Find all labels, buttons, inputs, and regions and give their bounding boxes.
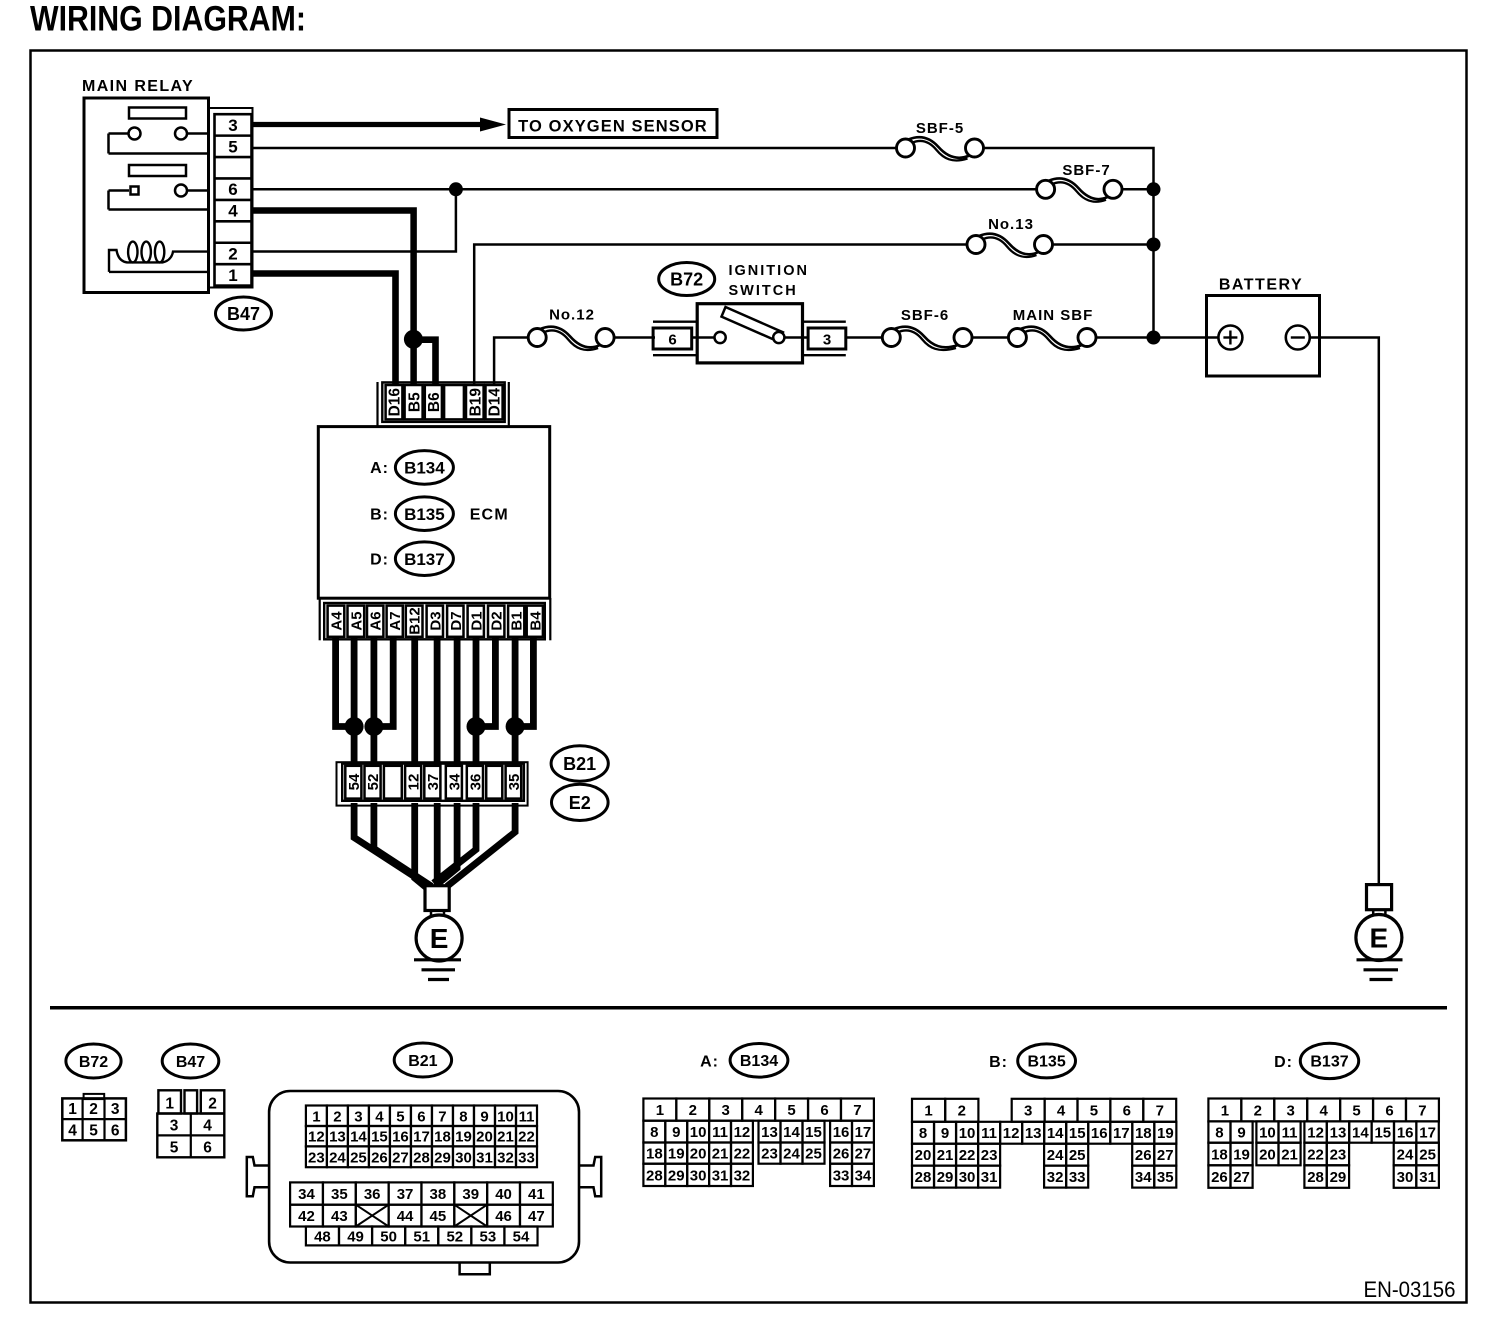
relay contact bar 1: [129, 108, 186, 119]
svg-text:B137: B137: [404, 550, 445, 569]
svg-text:6: 6: [203, 1139, 212, 1156]
svg-text:3: 3: [1287, 1102, 1295, 1119]
svg-text:6: 6: [1385, 1102, 1393, 1119]
svg-text:8: 8: [650, 1124, 658, 1141]
relay contact 1 terminals: [129, 128, 141, 140]
wire A4: [336, 637, 355, 727]
ground symbol right: [1357, 958, 1403, 961]
svg-text:B4: B4: [527, 611, 544, 631]
svg-text:13: 13: [1330, 1124, 1347, 1141]
svg-text:19: 19: [668, 1146, 685, 1163]
battery negative terminal: [1286, 326, 1310, 350]
svg-text:A5: A5: [348, 611, 365, 630]
ground terminal square right: [1367, 885, 1392, 910]
wire A6: [370, 637, 377, 766]
svg-text:23: 23: [761, 1146, 778, 1163]
svg-text:28: 28: [1307, 1169, 1324, 1186]
svg-text:44: 44: [397, 1208, 414, 1225]
svg-text:29: 29: [668, 1167, 685, 1184]
svg-text:5: 5: [228, 137, 237, 156]
svg-text:51: 51: [413, 1228, 430, 1245]
svg-text:27: 27: [1157, 1147, 1174, 1164]
svg-text:50: 50: [380, 1228, 397, 1245]
wire SBF-7 to bus: [1122, 188, 1154, 191]
connector B72 pinout: [84, 1094, 105, 1099]
svg-text:D14: D14: [487, 388, 504, 417]
svg-text:3: 3: [170, 1117, 179, 1134]
svg-text:8: 8: [919, 1125, 927, 1142]
connector B21 bottom tab: [460, 1263, 490, 1275]
svg-text:21: 21: [937, 1147, 954, 1164]
svg-text:28: 28: [646, 1167, 663, 1184]
svg-text:29: 29: [1330, 1169, 1347, 1186]
svg-text:35: 35: [506, 774, 523, 791]
oval B21 schematic: [551, 746, 608, 781]
svg-text:10: 10: [497, 1108, 514, 1125]
wire relay pin 5: [253, 147, 897, 150]
ignition switch blade: [722, 307, 784, 342]
svg-text:5: 5: [89, 1122, 98, 1139]
oval B21 pinout: [394, 1043, 451, 1077]
oval B134 pinout: [730, 1044, 788, 1078]
svg-text:6: 6: [668, 332, 676, 349]
connector B21 left tab: [247, 1157, 268, 1196]
wire B1: [512, 637, 519, 766]
fuse SBF-6: [894, 327, 958, 348]
svg-text:B134: B134: [404, 459, 445, 478]
svg-text:EN-03156: EN-03156: [1364, 1277, 1456, 1302]
connector strip B47 cells: [215, 114, 252, 285]
svg-text:E2: E2: [569, 793, 591, 813]
connector B21 body: [269, 1091, 579, 1263]
svg-text:25: 25: [1069, 1147, 1086, 1164]
wire D3: [434, 637, 441, 766]
fuse SBF-5: [909, 137, 970, 158]
svg-text:10: 10: [690, 1124, 707, 1141]
svg-text:46: 46: [495, 1208, 512, 1225]
svg-text:A7: A7: [387, 611, 404, 630]
svg-text:47: 47: [528, 1208, 545, 1225]
B21 middle grid pins 34-47: [290, 1182, 323, 1204]
svg-text:31: 31: [1419, 1169, 1436, 1186]
wire No.13 to bus: [1052, 243, 1154, 246]
svg-text:37: 37: [425, 774, 442, 791]
svg-text:8: 8: [1215, 1124, 1223, 1141]
wire D1: [473, 637, 480, 766]
oval B47 pinout: [162, 1044, 219, 1078]
svg-text:B6: B6: [426, 392, 443, 412]
relay contact bar 2: [129, 165, 186, 176]
svg-text:ECM: ECM: [470, 507, 509, 524]
section divider: [50, 1006, 1447, 1010]
svg-text:22: 22: [734, 1146, 751, 1163]
svg-text:2: 2: [333, 1108, 341, 1125]
svg-text:5: 5: [787, 1102, 795, 1119]
svg-text:4: 4: [203, 1117, 212, 1134]
oval B72 pinout: [66, 1044, 121, 1078]
connector B134 grid: [643, 1099, 676, 1121]
svg-text:11: 11: [712, 1124, 728, 1141]
svg-text:1: 1: [656, 1102, 664, 1119]
ignition switch contacts: [692, 336, 715, 339]
svg-text:6: 6: [1123, 1103, 1131, 1120]
svg-text:25: 25: [350, 1149, 367, 1166]
svg-text:16: 16: [1091, 1125, 1108, 1142]
svg-text:6: 6: [111, 1122, 120, 1139]
junction A6/A7: [364, 717, 383, 736]
svg-text:52: 52: [446, 1228, 463, 1245]
svg-text:14: 14: [350, 1129, 367, 1146]
relay contact 1 wiring: [109, 132, 130, 135]
svg-text:D7: D7: [448, 611, 465, 630]
svg-text:13: 13: [329, 1129, 346, 1146]
svg-text:3: 3: [1024, 1103, 1032, 1120]
svg-text:29: 29: [434, 1149, 451, 1166]
wire relay pin 1 to ECM D16: [253, 274, 396, 387]
svg-text:B72: B72: [670, 269, 703, 289]
wire relay pin 4 to ECM B5: [253, 211, 414, 387]
wire D7: [454, 637, 461, 766]
svg-text:1: 1: [1221, 1102, 1229, 1119]
svg-text:3: 3: [823, 332, 831, 349]
svg-text:33: 33: [518, 1149, 535, 1166]
wire B4: [515, 637, 533, 727]
svg-text:27: 27: [1233, 1169, 1250, 1186]
connector B47 pinout: [158, 1090, 181, 1113]
svg-text:D1: D1: [468, 611, 485, 630]
svg-text:22: 22: [1307, 1146, 1324, 1163]
svg-text:54: 54: [513, 1228, 530, 1245]
svg-text:BATTERY: BATTERY: [1219, 277, 1303, 294]
svg-text:B134: B134: [740, 1053, 778, 1070]
svg-text:45: 45: [430, 1208, 447, 1225]
svg-text:17: 17: [855, 1124, 872, 1141]
fuse SBF-7: [1049, 179, 1108, 200]
svg-text:D3: D3: [427, 611, 444, 630]
connector B137 grid: [1208, 1099, 1241, 1122]
svg-text:2: 2: [958, 1103, 966, 1120]
svg-text:1: 1: [312, 1108, 320, 1125]
relay contact 2 wiring: [109, 189, 130, 192]
svg-text:1: 1: [924, 1103, 932, 1120]
svg-text:MAIN SBF: MAIN SBF: [1013, 307, 1094, 324]
svg-text:E: E: [430, 923, 449, 954]
svg-text:4: 4: [754, 1102, 763, 1119]
svg-text:42: 42: [298, 1208, 315, 1225]
fuse MAIN SBF: [1020, 327, 1082, 348]
svg-text:2: 2: [228, 244, 237, 263]
svg-text:32: 32: [734, 1167, 751, 1184]
ground connector housing: [337, 762, 528, 805]
svg-text:19: 19: [455, 1129, 472, 1146]
svg-text:3: 3: [354, 1108, 362, 1125]
junction bus SBF-7: [1147, 182, 1161, 196]
svg-text:B:: B:: [370, 507, 389, 524]
svg-text:34: 34: [446, 773, 463, 790]
svg-text:17: 17: [1419, 1124, 1436, 1141]
svg-text:19: 19: [1157, 1125, 1174, 1142]
junction bus main line: [1147, 331, 1161, 345]
svg-text:No.12: No.12: [549, 307, 595, 324]
ground connector cells 54 52 12 37 34 36 35: [342, 764, 524, 801]
svg-text:21: 21: [497, 1129, 514, 1146]
svg-text:3: 3: [111, 1101, 120, 1118]
svg-text:49: 49: [347, 1228, 364, 1245]
svg-text:12: 12: [734, 1124, 751, 1141]
relay contact 2 terminals: [131, 187, 139, 195]
svg-text:16: 16: [392, 1129, 409, 1146]
connector B21 right tab: [580, 1157, 601, 1196]
svg-text:B72: B72: [79, 1054, 108, 1071]
wire relay pin 6: [253, 188, 1038, 191]
ECM bottom connector cells A4 A5 A6 A7 B12 D3 D7 D1 D2 B1 B4: [328, 606, 345, 637]
oval E2 schematic: [552, 784, 609, 820]
oval B135 pinout: [1018, 1044, 1076, 1078]
svg-text:D:: D:: [370, 552, 389, 569]
svg-text:SBF-6: SBF-6: [901, 307, 949, 324]
svg-text:35: 35: [1157, 1169, 1174, 1186]
wire ignition to SBF-6: [846, 336, 883, 339]
svg-text:9: 9: [480, 1108, 488, 1125]
svg-text:2: 2: [208, 1095, 217, 1112]
svg-text:12: 12: [406, 774, 423, 791]
svg-text:A4: A4: [328, 611, 345, 631]
svg-text:13: 13: [761, 1124, 778, 1141]
svg-text:41: 41: [528, 1186, 545, 1203]
wire SBF-6 to MAIN SBF: [972, 336, 1009, 339]
ground E right: [1356, 915, 1402, 961]
svg-text:12: 12: [308, 1129, 325, 1146]
svg-text:19: 19: [1233, 1146, 1250, 1163]
svg-text:52: 52: [365, 774, 382, 791]
svg-text:5: 5: [396, 1108, 404, 1125]
svg-text:1: 1: [165, 1095, 174, 1112]
ECM bottom connector housing: [319, 598, 321, 640]
svg-text:2: 2: [689, 1102, 697, 1119]
svg-text:32: 32: [1047, 1169, 1064, 1186]
svg-text:7: 7: [853, 1102, 861, 1119]
TO OXYGEN SENSOR box: [509, 110, 717, 138]
connector B135 grid: [912, 1099, 945, 1122]
svg-text:B47: B47: [176, 1054, 205, 1071]
junction node pin6/pin2: [449, 182, 463, 196]
svg-text:26: 26: [833, 1146, 850, 1163]
svg-text:4: 4: [375, 1108, 384, 1125]
svg-text:23: 23: [1330, 1146, 1347, 1163]
svg-text:15: 15: [371, 1129, 388, 1146]
svg-text:B12: B12: [407, 607, 424, 635]
svg-text:B5: B5: [406, 392, 423, 412]
svg-text:3: 3: [228, 116, 237, 135]
svg-text:5: 5: [1352, 1102, 1360, 1119]
svg-text:28: 28: [915, 1169, 932, 1186]
svg-text:No.13: No.13: [988, 216, 1034, 233]
ECM top connector housing: [376, 382, 378, 426]
oval B72: [659, 263, 715, 296]
svg-text:30: 30: [1397, 1169, 1414, 1186]
ignition switch pin 3 box: [804, 321, 846, 323]
svg-text:IGNITION: IGNITION: [729, 263, 809, 279]
battery positive terminal: [1207, 336, 1220, 339]
svg-text:27: 27: [392, 1149, 409, 1166]
fuse No.13: [979, 234, 1039, 255]
svg-text:36: 36: [467, 774, 484, 791]
svg-text:A6: A6: [368, 611, 385, 630]
svg-text:18: 18: [434, 1129, 451, 1146]
wire MAIN SBF to battery: [1096, 336, 1207, 339]
svg-text:24: 24: [329, 1149, 346, 1166]
svg-text:22: 22: [959, 1147, 976, 1164]
main relay box: [84, 98, 209, 293]
svg-text:35: 35: [331, 1186, 348, 1203]
svg-text:33: 33: [1069, 1169, 1086, 1186]
svg-text:11: 11: [519, 1108, 535, 1125]
wire ECM D14: [494, 338, 529, 387]
B21 top grid pins 1-33: [306, 1106, 327, 1127]
wire B12: [411, 637, 418, 766]
svg-text:MAIN RELAY: MAIN RELAY: [82, 78, 194, 95]
svg-text:15: 15: [1069, 1125, 1086, 1142]
svg-text:26: 26: [1135, 1147, 1152, 1164]
svg-text:4: 4: [1057, 1103, 1066, 1120]
svg-text:26: 26: [371, 1149, 388, 1166]
wire D2: [476, 637, 495, 727]
svg-text:1: 1: [228, 266, 237, 285]
svg-text:18: 18: [1211, 1146, 1228, 1163]
svg-text:30: 30: [690, 1167, 707, 1184]
junction A4/A5: [345, 717, 364, 736]
ignition switch pin 6 box: [653, 321, 697, 323]
svg-text:3: 3: [722, 1102, 730, 1119]
svg-text:33: 33: [833, 1167, 850, 1184]
wire ECM B19: [474, 245, 967, 387]
ground terminal square left: [425, 886, 449, 911]
svg-text:7: 7: [1418, 1102, 1426, 1119]
svg-text:30: 30: [455, 1149, 472, 1166]
svg-text:26: 26: [1211, 1169, 1228, 1186]
svg-text:31: 31: [981, 1169, 998, 1186]
svg-text:B:: B:: [989, 1054, 1008, 1071]
svg-text:B47: B47: [227, 304, 260, 324]
svg-text:39: 39: [462, 1186, 479, 1203]
junction B1/B4: [506, 717, 525, 736]
svg-text:23: 23: [981, 1147, 998, 1164]
svg-text:20: 20: [690, 1146, 707, 1163]
funnel wires to ground: [354, 803, 428, 886]
oval B137 pinout: [1300, 1043, 1358, 1078]
svg-text:9: 9: [941, 1125, 949, 1142]
svg-text:54: 54: [346, 773, 363, 790]
svg-text:36: 36: [364, 1186, 381, 1203]
svg-text:2: 2: [1254, 1102, 1262, 1119]
svg-text:10: 10: [959, 1125, 976, 1142]
wire A5: [351, 637, 358, 766]
svg-text:6: 6: [820, 1102, 828, 1119]
junction bus No.13: [1147, 238, 1161, 252]
svg-text:A:: A:: [700, 1054, 719, 1071]
svg-text:11: 11: [981, 1125, 997, 1142]
junction node B5/B6: [404, 330, 423, 349]
B21 bottom row pins 48-54: [306, 1227, 339, 1246]
svg-text:22: 22: [518, 1129, 535, 1146]
svg-text:D2: D2: [489, 611, 506, 630]
svg-text:21: 21: [712, 1146, 729, 1163]
svg-text:24: 24: [1047, 1147, 1064, 1164]
svg-text:15: 15: [805, 1124, 822, 1141]
ground E left: [416, 915, 462, 961]
svg-text:D16: D16: [387, 388, 404, 417]
svg-text:4: 4: [1319, 1102, 1328, 1119]
svg-text:34: 34: [298, 1186, 315, 1203]
svg-text:5: 5: [170, 1139, 179, 1156]
svg-text:34: 34: [855, 1167, 872, 1184]
svg-text:20: 20: [915, 1147, 932, 1164]
svg-text:24: 24: [1397, 1146, 1414, 1163]
svg-text:TO OXYGEN SENSOR: TO OXYGEN SENSOR: [518, 117, 708, 135]
svg-text:24: 24: [783, 1146, 800, 1163]
svg-text:14: 14: [1352, 1124, 1369, 1141]
svg-text:B21: B21: [408, 1053, 437, 1070]
svg-text:16: 16: [833, 1124, 850, 1141]
svg-text:WIRING DIAGRAM:: WIRING DIAGRAM:: [30, 0, 306, 39]
svg-text:SWITCH: SWITCH: [729, 283, 798, 299]
svg-text:40: 40: [495, 1186, 512, 1203]
battery box: [1207, 296, 1320, 377]
svg-text:6: 6: [228, 180, 237, 199]
svg-text:4: 4: [228, 202, 238, 221]
svg-text:2: 2: [89, 1101, 98, 1118]
svg-text:43: 43: [331, 1208, 348, 1225]
svg-text:17: 17: [1113, 1125, 1130, 1142]
power bus with corner: [984, 148, 1154, 338]
svg-text:30: 30: [959, 1169, 976, 1186]
svg-text:13: 13: [1025, 1125, 1042, 1142]
svg-text:D:: D:: [1274, 1054, 1293, 1071]
svg-text:9: 9: [672, 1124, 680, 1141]
svg-text:B137: B137: [1310, 1054, 1348, 1071]
wire A7: [374, 637, 393, 727]
wire No.12 to ignition switch: [614, 336, 656, 339]
svg-text:37: 37: [397, 1186, 414, 1203]
svg-text:E: E: [1370, 923, 1389, 954]
svg-text:25: 25: [1419, 1146, 1436, 1163]
svg-text:SBF-7: SBF-7: [1062, 162, 1110, 179]
svg-text:A:: A:: [370, 460, 389, 477]
relay coil: [109, 250, 209, 272]
svg-text:7: 7: [438, 1108, 446, 1125]
ECM top connector cells D16 B5 B6 B19 D14: [386, 385, 403, 419]
svg-text:12: 12: [1003, 1125, 1020, 1142]
svg-text:23: 23: [308, 1149, 325, 1166]
branch wire to ECM B6: [411, 340, 436, 386]
svg-text:10: 10: [1259, 1124, 1276, 1141]
svg-text:6: 6: [417, 1108, 425, 1125]
svg-text:48: 48: [314, 1228, 331, 1245]
svg-text:15: 15: [1374, 1124, 1391, 1141]
svg-text:31: 31: [476, 1149, 493, 1166]
svg-text:32: 32: [497, 1149, 514, 1166]
connector strip B47 housing: [209, 108, 253, 288]
ignition switch body: [697, 304, 802, 363]
svg-text:20: 20: [476, 1129, 493, 1146]
svg-text:9: 9: [1237, 1124, 1245, 1141]
svg-text:27: 27: [855, 1146, 872, 1163]
svg-text:SBF-5: SBF-5: [916, 120, 964, 137]
svg-text:21: 21: [1281, 1146, 1298, 1163]
svg-text:7: 7: [1156, 1103, 1164, 1120]
svg-text:18: 18: [1135, 1125, 1152, 1142]
ground symbol left: [414, 958, 461, 961]
